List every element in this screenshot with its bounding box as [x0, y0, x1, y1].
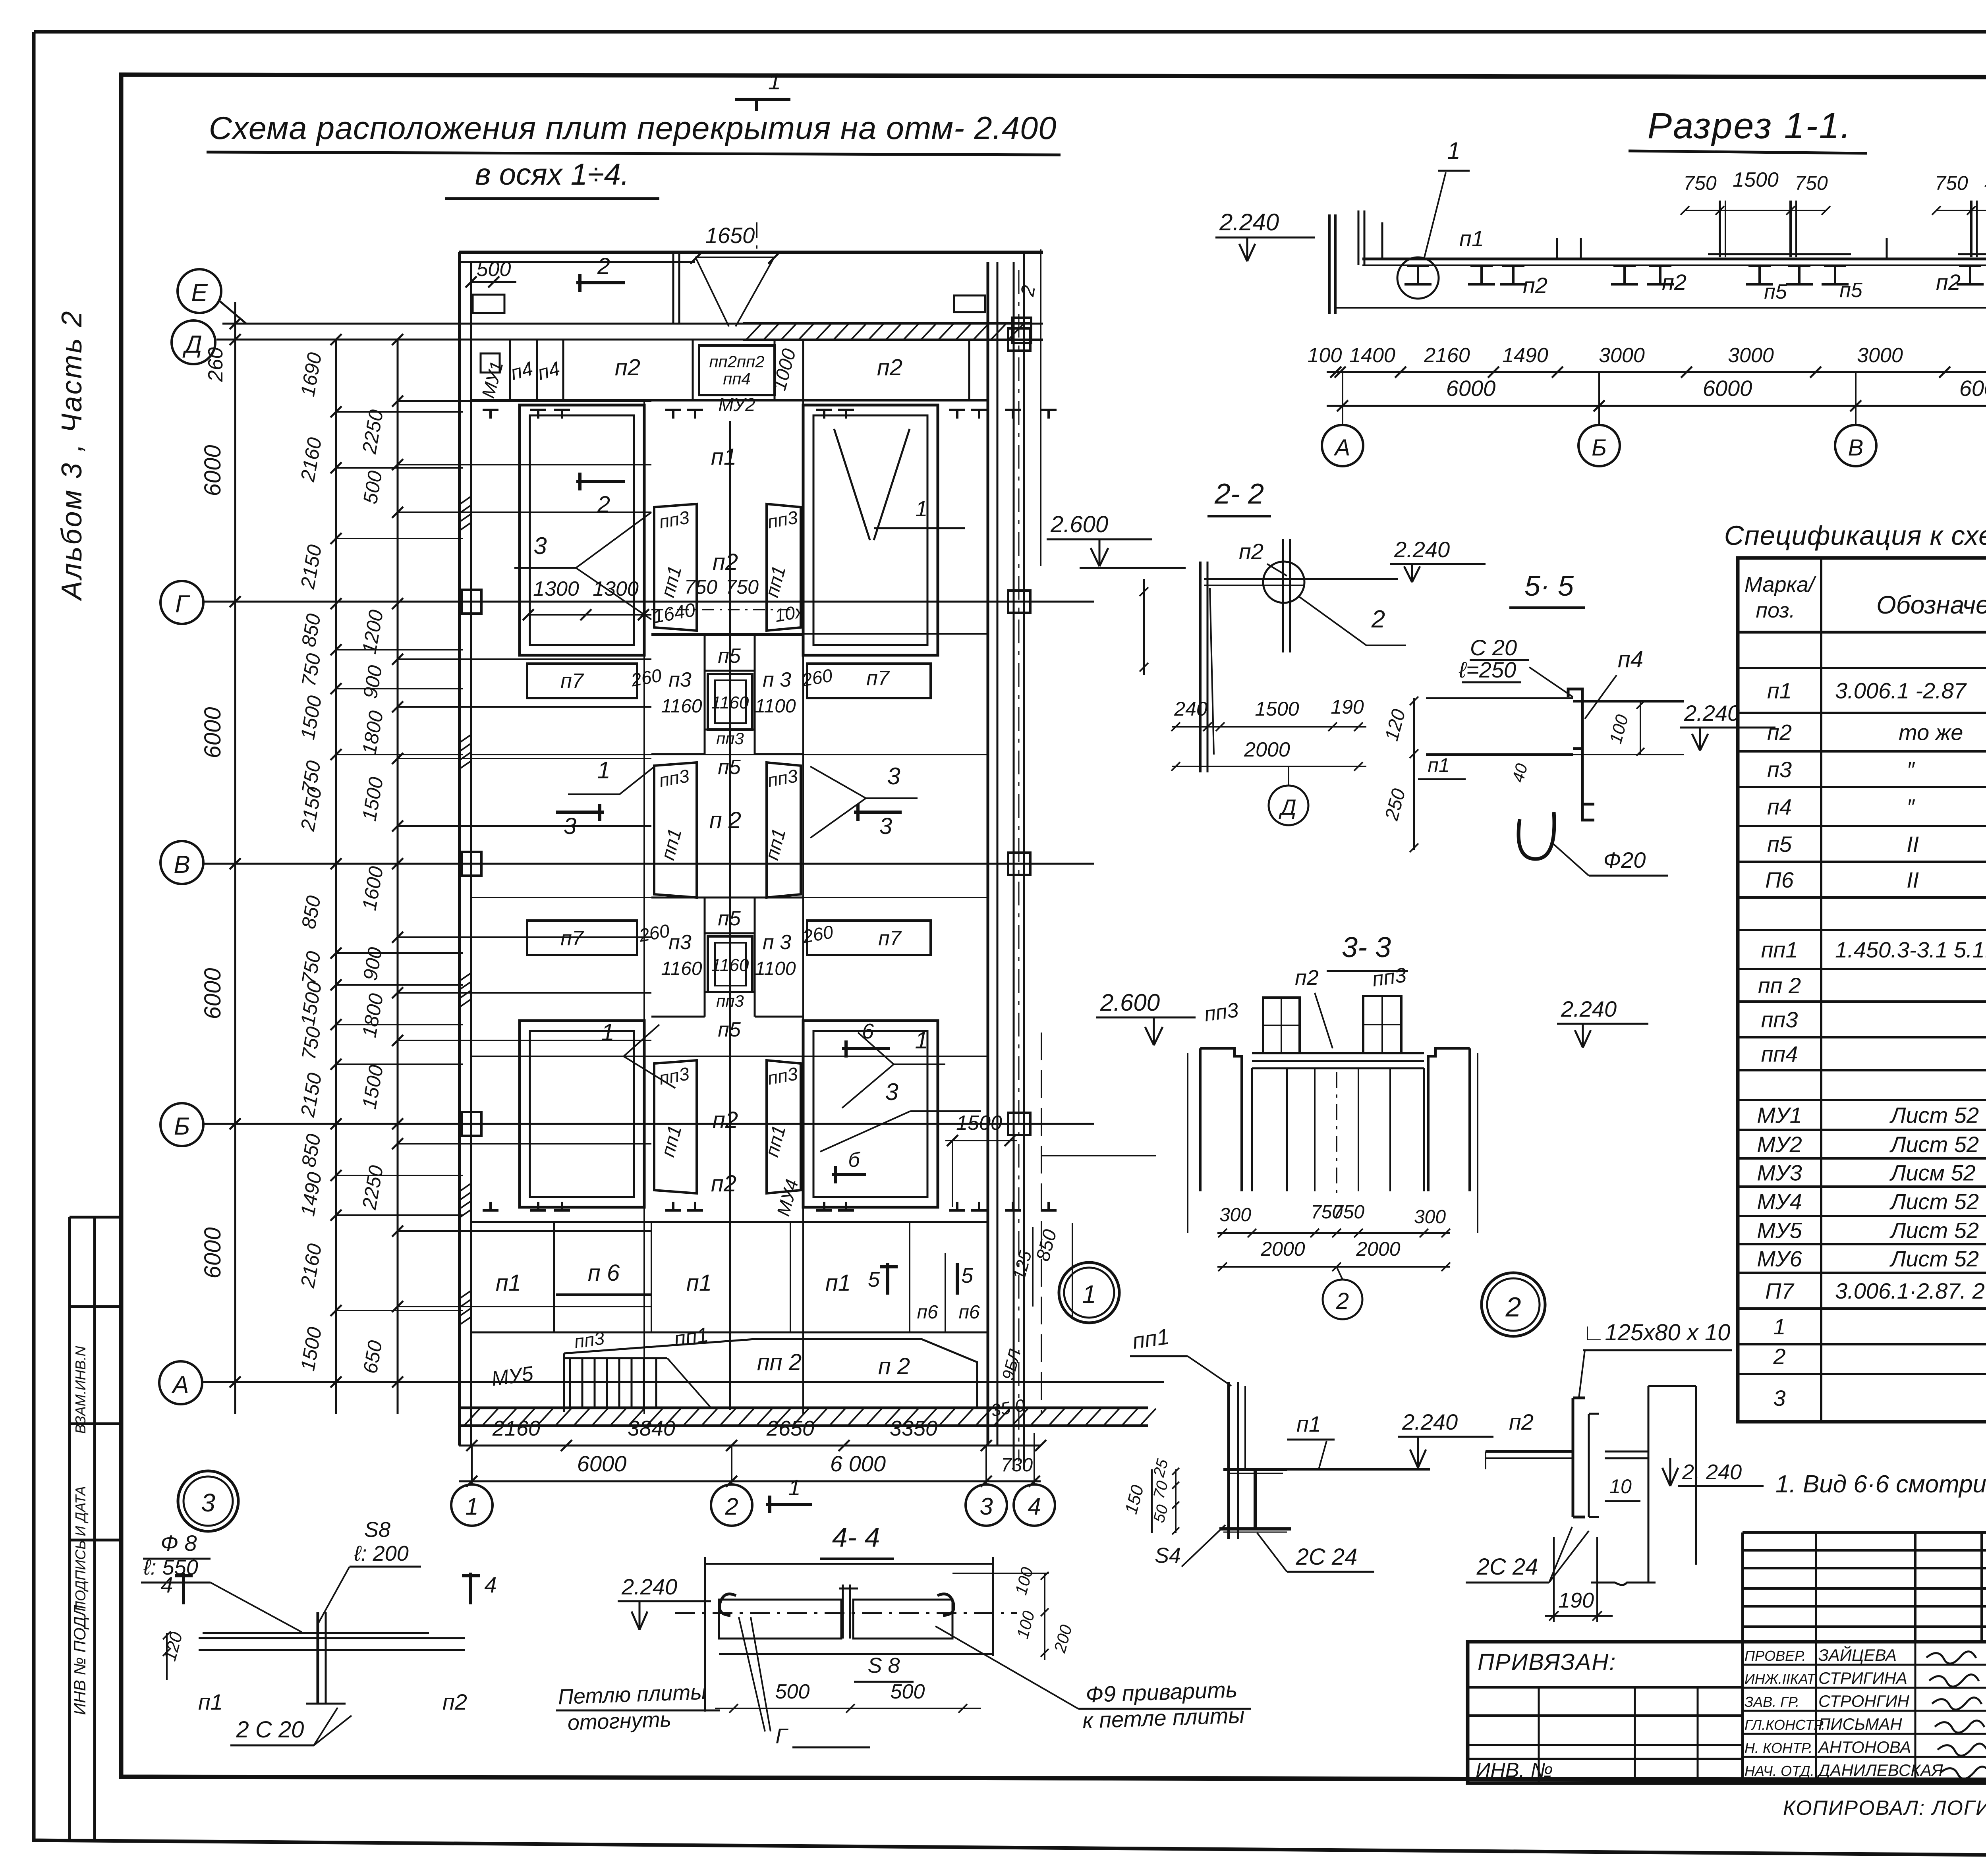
- svg-text:3: 3: [885, 1079, 898, 1105]
- 5-5 hook F20: [1518, 812, 1554, 859]
- svg-text:С 20: С 20: [1470, 635, 1517, 660]
- svg-text:190: 190: [1558, 1588, 1594, 1612]
- svg-text:2.240: 2.240: [1684, 701, 1740, 726]
- svg-text:300: 300: [1414, 1206, 1446, 1228]
- svg-text:1: 1: [601, 1019, 614, 1046]
- svg-text:1160: 1160: [711, 693, 749, 712]
- razrez bottom line: [1336, 307, 1986, 309]
- central vertical axis of strip: [729, 421, 731, 1410]
- svg-text:3- 3: 3- 3: [1342, 932, 1391, 963]
- svg-text:4: 4: [484, 1572, 496, 1597]
- svg-text:отогнуть: отогнуть: [567, 1707, 672, 1735]
- svg-text:Лисм 52: Лисм 52: [1889, 1160, 1976, 1185]
- plan far right wall axis4: [1013, 262, 1015, 1469]
- 4-4 leader G: [739, 1617, 771, 1731]
- axis circle G: [160, 581, 203, 624]
- b mark lower right: [832, 1173, 866, 1176]
- plan hatched wall band top: [743, 322, 1030, 324]
- svg-text:п1: п1: [1767, 678, 1792, 703]
- svg-text:1100: 1100: [755, 958, 796, 979]
- svg-text:240: 240: [1174, 698, 1207, 720]
- svg-text:Ф 8: Ф 8: [160, 1531, 197, 1556]
- node 2 wall: [1648, 1386, 1650, 1583]
- svg-text:МУ2: МУ2: [1757, 1132, 1802, 1157]
- axis circle 1: [451, 1484, 493, 1526]
- svg-text:поз.: поз.: [1756, 598, 1795, 622]
- railing dims 750 1500 750 group1: [1685, 210, 1826, 211]
- axis circle 2: [711, 1484, 752, 1526]
- left wall hatch strokes: [460, 496, 471, 504]
- joint box on hatch band: [1012, 318, 1031, 343]
- axis G line: [203, 601, 1094, 603]
- svg-text:6 000: 6 000: [830, 1451, 886, 1476]
- 2-2 node circle 2: [1263, 562, 1304, 603]
- svg-text:пп4: пп4: [723, 369, 751, 388]
- svg-text:II: II: [1907, 867, 1919, 892]
- svg-text:2: 2: [1773, 1344, 1785, 1369]
- svg-text:А: А: [1334, 435, 1350, 461]
- svg-text:6000: 6000: [577, 1451, 627, 1476]
- svg-text:пп1: пп1: [1761, 937, 1798, 962]
- plan bottom hatched wall: [460, 1407, 1148, 1409]
- plate row line 1900: [471, 754, 988, 755]
- svg-text:ЗАВ. ГР.: ЗАВ. ГР.: [1745, 1694, 1799, 1710]
- svg-text:СТРОНГИН: СТРОНГИН: [1818, 1692, 1909, 1710]
- svg-text:5: 5: [961, 1264, 974, 1287]
- 3-3 center line: [1336, 1072, 1337, 1195]
- svg-text:пп3: пп3: [1371, 963, 1408, 991]
- left dim chain 6000: [234, 302, 236, 1414]
- svg-text:Лист 52: Лист 52: [1889, 1218, 1979, 1243]
- svg-text:2.240: 2.240: [1394, 537, 1450, 562]
- svg-text:п4: п4: [1767, 794, 1792, 819]
- svg-text:3: 3: [879, 813, 892, 839]
- svg-text:2- 2: 2- 2: [1214, 478, 1264, 510]
- left shaft upper: [520, 405, 644, 655]
- svg-text:п2: п2: [713, 549, 738, 575]
- bottom chain detailed: [459, 1445, 1041, 1447]
- svg-text:СТРИГИНА: СТРИГИНА: [1818, 1669, 1907, 1687]
- section mark 1 bottom: [766, 1503, 812, 1506]
- node 1 I-beam: [1219, 1469, 1291, 1529]
- plan left wall: [458, 252, 461, 1446]
- svg-text:П6: П6: [1765, 867, 1794, 892]
- parapet box 2: [954, 295, 985, 312]
- axis D line: [216, 339, 1043, 341]
- svg-text:п5: п5: [1839, 279, 1863, 302]
- svg-text:2: 2: [1505, 1291, 1521, 1322]
- small p6 p6 cells: [909, 1222, 910, 1332]
- svg-text:п5: п5: [718, 1018, 741, 1041]
- svg-text:ЗАЙЦЕВА: ЗАЙЦЕВА: [1818, 1645, 1897, 1664]
- svg-text:Г: Г: [775, 1724, 788, 1748]
- left dim chain 3: [397, 340, 399, 1414]
- svg-text:3: 3: [533, 533, 547, 559]
- svg-text:Д: Д: [1278, 795, 1296, 820]
- svg-text:п1: п1: [825, 1270, 851, 1296]
- small squares on axis4 wall: [1008, 591, 1030, 613]
- node circle 3 left: [178, 1471, 238, 1531]
- svg-text:п2: п2: [1239, 539, 1263, 564]
- svg-text:3.006.1 -2.87: 3.006.1 -2.87: [1835, 678, 1967, 703]
- svg-text:3000: 3000: [1599, 344, 1645, 367]
- 2-2 dims: [1172, 726, 1366, 728]
- svg-text:Д: Д: [182, 331, 202, 358]
- slant plates pair 3: [654, 1060, 697, 1193]
- plate row line 2660: [471, 1056, 988, 1057]
- 2-2 axis circle D: [1269, 786, 1308, 825]
- title block main outline: [1468, 1642, 1986, 1783]
- svg-text:2.240: 2.240: [621, 1574, 677, 1599]
- svg-text:6000: 6000: [1959, 376, 1986, 401]
- right vertical dim line: [1072, 1223, 1073, 1318]
- svg-text:пп3: пп3: [716, 729, 744, 748]
- svg-text:ИНВ. №: ИНВ. №: [1476, 1759, 1553, 1782]
- svg-text:п1: п1: [198, 1689, 223, 1714]
- svg-text:2 С 20: 2 С 20: [236, 1717, 304, 1743]
- svg-text:то же: то же: [1899, 720, 1963, 745]
- svg-text:5· 5: 5· 5: [1524, 570, 1574, 602]
- svg-text:1: 1: [915, 496, 927, 521]
- axis circle 3: [966, 1484, 1007, 1526]
- right shaft lower: [803, 1021, 938, 1207]
- svg-text:6000: 6000: [200, 707, 226, 758]
- svg-text:п5: п5: [1764, 280, 1787, 303]
- node 2 big circle: [1482, 1273, 1545, 1336]
- svg-text:Обозначение: Обозначение: [1876, 591, 1986, 619]
- svg-text:п1: п1: [1428, 754, 1449, 776]
- svg-text:1: 1: [465, 1493, 478, 1520]
- node 1 dims: [1175, 1469, 1177, 1533]
- svg-text:3: 3: [887, 763, 900, 789]
- slant plates pair 2: [654, 762, 697, 897]
- axis A line: [203, 1381, 1164, 1383]
- 3-3 slab: [1252, 1052, 1424, 1054]
- box pp2 pp2 pp4: [699, 345, 775, 395]
- svg-text:п2: п2: [1523, 273, 1547, 298]
- svg-text:2160: 2160: [492, 1417, 540, 1440]
- svg-text:2000: 2000: [1244, 738, 1290, 761]
- 3-3 posts: [1263, 998, 1300, 1053]
- svg-text:2000: 2000: [1356, 1238, 1400, 1260]
- svg-text:6000: 6000: [1703, 376, 1752, 401]
- svg-text:п 3: п 3: [763, 931, 791, 954]
- svg-text:МУ5: МУ5: [1757, 1218, 1802, 1243]
- svg-text:6000: 6000: [200, 445, 226, 496]
- slant plates pair 1: [654, 504, 697, 631]
- svg-text:АНТОНОВА: АНТОНОВА: [1817, 1738, 1911, 1756]
- plate row line 2260: [471, 897, 988, 898]
- svg-text:6: 6: [862, 1019, 874, 1043]
- svg-text:2С 24: 2С 24: [1296, 1544, 1358, 1570]
- svg-text:пп1: пп1: [1131, 1324, 1171, 1353]
- svg-text:1500: 1500: [956, 1112, 1002, 1135]
- axis circle E: [178, 269, 221, 313]
- plan right wall axis3: [987, 262, 989, 1446]
- razrez axis circles: [1342, 372, 1343, 425]
- center block 2: [651, 897, 803, 899]
- 2-2 left dim: [1143, 579, 1145, 675]
- cells p4 p4: [536, 340, 538, 400]
- svg-text:п2: п2: [877, 355, 902, 380]
- svg-text:1300: 1300: [593, 577, 639, 600]
- svg-text:ВЗАМ.ИНВ.N: ВЗАМ.ИНВ.N: [72, 1345, 89, 1434]
- svg-text:1: 1: [1447, 137, 1460, 164]
- svg-text:пп3: пп3: [1761, 1007, 1798, 1032]
- svg-text:п3: п3: [1767, 757, 1792, 782]
- svg-text:МУ6: МУ6: [1757, 1246, 1802, 1271]
- left dim chain 2: [335, 340, 337, 1414]
- svg-text:″: ″: [1907, 757, 1915, 782]
- svg-text:Альбом 3 , Часть 2: Альбом 3 , Часть 2: [56, 310, 88, 602]
- svg-text:2000: 2000: [1260, 1238, 1305, 1260]
- svg-text:2.600: 2.600: [1050, 511, 1108, 537]
- 4-4 top dim line: [705, 1563, 993, 1565]
- section mark 5 pair: [886, 1263, 889, 1295]
- leader 6 1 lower right: [842, 1047, 890, 1050]
- svg-text:пп3: пп3: [716, 992, 744, 1010]
- svg-text:п 2: п 2: [878, 1353, 910, 1379]
- svg-text:3840: 3840: [628, 1417, 675, 1440]
- razrez dim chain row2 6000: [1327, 405, 1986, 407]
- row line at 3077: [471, 1221, 988, 1223]
- svg-text:300: 300: [1219, 1204, 1251, 1226]
- svg-text:ИНЖ.IIКАТ: ИНЖ.IIКАТ: [1745, 1671, 1816, 1687]
- svg-text:3: 3: [201, 1488, 215, 1517]
- svg-text:730: 730: [1001, 1455, 1033, 1476]
- 2-2 drawing: [1204, 578, 1398, 580]
- parapet box 1: [473, 295, 504, 313]
- svg-text:2: 2: [1371, 606, 1385, 633]
- svg-text:Марка/: Марка/: [1745, 573, 1816, 596]
- svg-text:МУ1: МУ1: [1757, 1103, 1802, 1128]
- svg-text:НАЧ. ОТД.: НАЧ. ОТД.: [1745, 1763, 1814, 1779]
- 5-5 dims left: [1413, 698, 1415, 850]
- svg-text:3000: 3000: [1857, 344, 1903, 367]
- axis circle V: [160, 841, 203, 884]
- svg-text:п3: п3: [668, 931, 692, 954]
- svg-text:1.450.3-3.1 5.1.0.1.0- 08: 1.450.3-3.1 5.1.0.1.0- 08: [1835, 937, 1986, 962]
- svg-text:2С 24: 2С 24: [1476, 1554, 1538, 1580]
- title block small grid: [1743, 1531, 1986, 1534]
- svg-text:пп3: пп3: [573, 1328, 606, 1352]
- svg-text:1490: 1490: [1502, 344, 1548, 367]
- svg-text:6000: 6000: [200, 968, 226, 1019]
- node circle 1 plan: [1059, 1262, 1119, 1323]
- node 2 bottom hook: [1591, 1583, 1656, 1585]
- svg-text:В: В: [1848, 435, 1864, 461]
- node circle on razrez left: [1397, 257, 1439, 299]
- svg-text:Ф20: Ф20: [1603, 847, 1646, 872]
- svg-text:п2: п2: [1767, 720, 1792, 745]
- svg-text:пп 2: пп 2: [757, 1349, 802, 1375]
- axis circle D: [172, 320, 215, 364]
- corner support marks row top: [483, 410, 498, 419]
- left shaft lower: [520, 1021, 644, 1207]
- svg-text:1: 1: [788, 1475, 800, 1500]
- svg-text:2: 2: [724, 1493, 738, 1520]
- razrez slab lines: [1362, 258, 1986, 261]
- right shaft upper: [803, 405, 938, 655]
- svg-text:2.240: 2.240: [1402, 1409, 1458, 1434]
- node 1 slab: [1245, 1468, 1430, 1471]
- svg-text:1500: 1500: [1255, 698, 1299, 720]
- razrez left wall: [1328, 214, 1331, 314]
- section mark 4 left: [182, 1573, 185, 1604]
- svg-text:2: 2: [1336, 1288, 1349, 1314]
- svg-text:1160: 1160: [661, 696, 702, 717]
- svg-text:п7: п7: [866, 667, 890, 690]
- svg-text:3: 3: [979, 1493, 993, 1520]
- svg-text:3000: 3000: [1728, 344, 1774, 367]
- 4-4 plates: [719, 1600, 841, 1639]
- svg-text:4: 4: [1028, 1493, 1041, 1520]
- svg-text:Г: Г: [175, 591, 190, 618]
- svg-text:п7: п7: [878, 927, 902, 950]
- razrez vertical marks at slab: [1381, 222, 1383, 258]
- dim extension lines into plan field: [398, 400, 651, 402]
- section mark 3 left: [556, 811, 604, 814]
- svg-text:1500: 1500: [1733, 168, 1779, 191]
- svg-text:ПРИВЯЗАН:: ПРИВЯЗАН:: [1478, 1649, 1616, 1675]
- razrez railings group 1: [1719, 201, 1721, 257]
- svg-text:А: А: [171, 1371, 189, 1399]
- node 2 channel: [1573, 1398, 1585, 1517]
- svg-text:2160: 2160: [1424, 344, 1470, 367]
- left detail stiffener: [317, 1612, 319, 1704]
- upper gallery 500 dim: [471, 281, 516, 283]
- svg-text:в осях 1÷4.: в осях 1÷4.: [475, 158, 629, 191]
- svg-text:Разрез 1-1.: Разрез 1-1.: [1648, 106, 1852, 146]
- svg-text:1: 1: [915, 1027, 928, 1054]
- svg-text:п2: п2: [1509, 1409, 1534, 1434]
- razrez dim chain row1: [1327, 371, 1986, 373]
- svg-text:2.240: 2.240: [1219, 209, 1279, 235]
- secondary right line: [1040, 249, 1041, 566]
- svg-text:пп 2: пп 2: [1758, 973, 1801, 998]
- svg-text:10: 10: [1609, 1475, 1632, 1498]
- svg-text:260: 260: [204, 347, 227, 382]
- svg-text:ПРОВЕР.: ПРОВЕР.: [1745, 1648, 1806, 1664]
- section mark 2 upper: [576, 281, 625, 284]
- svg-text:пп3: пп3: [1203, 998, 1240, 1026]
- svg-text:п2: п2: [442, 1689, 467, 1714]
- svg-text:МУ4: МУ4: [1757, 1189, 1802, 1214]
- svg-text:S4: S4: [1155, 1544, 1181, 1567]
- axis E line: [222, 323, 1043, 325]
- 3-3 bottom dims: [1217, 1232, 1450, 1234]
- section mark 3 right: [854, 811, 902, 814]
- leaders to bottom circles: [471, 1446, 473, 1484]
- svg-text:п1: п1: [496, 1270, 521, 1296]
- svg-text:п 6: п 6: [588, 1260, 620, 1286]
- section mark 2 inner: [576, 480, 625, 483]
- svg-text:190: 190: [1331, 696, 1364, 718]
- svg-text:Лист 52: Лист 52: [1889, 1132, 1979, 1157]
- 5-5 drawing: [1426, 697, 1573, 699]
- svg-text:п7: п7: [560, 670, 584, 693]
- svg-text:500: 500: [477, 258, 511, 281]
- center block 1: [651, 634, 803, 636]
- axis circle B: [160, 1103, 203, 1146]
- top wall joint lines: [672, 254, 674, 323]
- svg-text:3: 3: [1773, 1386, 1785, 1411]
- svg-text:Б: Б: [1592, 435, 1607, 461]
- svg-text:3350: 3350: [890, 1417, 937, 1440]
- svg-text:∟125x80 x 10: ∟125x80 x 10: [1582, 1320, 1731, 1345]
- svg-text:пп2пп2: пп2пп2: [709, 352, 764, 371]
- axis circle 4: [1014, 1484, 1055, 1526]
- svg-text:6000: 6000: [1446, 376, 1496, 401]
- svg-text:II: II: [1907, 832, 1919, 857]
- svg-text:ИНВ № ПОДЛ: ИНВ № ПОДЛ: [70, 1605, 89, 1715]
- svg-text:1. Вид 6·6 смотри лист 51.: 1. Вид 6·6 смотри лист 51.: [1775, 1471, 1986, 1498]
- svg-text:пп4: пп4: [1761, 1042, 1798, 1067]
- svg-text:п5: п5: [718, 907, 741, 930]
- svg-text:1100: 1100: [755, 696, 796, 717]
- svg-text:Б: Б: [174, 1113, 190, 1140]
- 3-3 axis circle 2: [1323, 1280, 1362, 1319]
- p7 bar left 2: [527, 921, 637, 955]
- svg-text:п1: п1: [686, 1270, 712, 1296]
- plate row line 1596: [651, 633, 988, 635]
- plan row line under plate row: [471, 399, 988, 401]
- svg-text:б: б: [848, 1148, 860, 1172]
- svg-text:п6: п6: [917, 1302, 938, 1323]
- svg-text:ПИСЬМАН: ПИСЬМАН: [1818, 1715, 1902, 1733]
- svg-text:1: 1: [1773, 1314, 1785, 1339]
- svg-text:Схема расположения плит перекр: Схема расположения плит перекрытия на от…: [209, 110, 1057, 146]
- svg-text:2.600: 2.600: [1100, 989, 1160, 1016]
- svg-text:Лист 52: Лист 52: [1889, 1246, 1979, 1271]
- svg-text:1500: 1500: [1984, 168, 1986, 191]
- svg-text:ПОДПИСЬ И ДАТА: ПОДПИСЬ И ДАТА: [72, 1486, 89, 1612]
- svg-text:Н. КОНТР.: Н. КОНТР.: [1745, 1740, 1812, 1756]
- svg-text:1: 1: [1082, 1280, 1096, 1309]
- svg-text:п2: п2: [615, 355, 640, 380]
- 4-4 center connector: [842, 1585, 844, 1639]
- svg-text:п5: п5: [718, 645, 741, 668]
- svg-text:п6: п6: [958, 1302, 979, 1323]
- svg-text:1400: 1400: [1349, 344, 1395, 367]
- svg-text:750: 750: [1333, 1202, 1364, 1223]
- svg-text:S 8: S 8: [867, 1654, 900, 1677]
- svg-text:Спецификация к схеме расположе: Спецификация к схеме расположения плит п…: [1724, 520, 1986, 551]
- svg-text:Лист 52: Лист 52: [1889, 1103, 1979, 1128]
- svg-text:ДАНИЛЕВСКАЯ: ДАНИЛЕВСКАЯ: [1817, 1761, 1943, 1779]
- svg-text:″: ″: [1907, 794, 1915, 819]
- left margin inventory strip: [68, 1217, 71, 1840]
- svg-text:2. 240: 2. 240: [1682, 1460, 1742, 1484]
- svg-text:п1: п1: [1459, 226, 1484, 251]
- svg-text:750: 750: [1935, 172, 1968, 194]
- bottom chain 6000: [459, 1480, 1041, 1482]
- plan top wall: [459, 251, 1043, 254]
- node 1 post: [1227, 1382, 1230, 1539]
- svg-text:2: 2: [597, 253, 610, 279]
- svg-text:1: 1: [597, 757, 610, 784]
- svg-text:3: 3: [564, 813, 576, 839]
- svg-text:2.240: 2.240: [1561, 996, 1617, 1021]
- svg-text:1160: 1160: [661, 958, 702, 979]
- svg-text:п5: п5: [718, 756, 741, 779]
- svg-text:1300: 1300: [533, 577, 579, 600]
- axis circle A: [159, 1361, 202, 1404]
- svg-text:п2: п2: [711, 1171, 736, 1197]
- svg-text:п2: п2: [1662, 270, 1687, 295]
- svg-text:750: 750: [684, 576, 718, 598]
- svg-text:п4: п4: [1618, 647, 1643, 672]
